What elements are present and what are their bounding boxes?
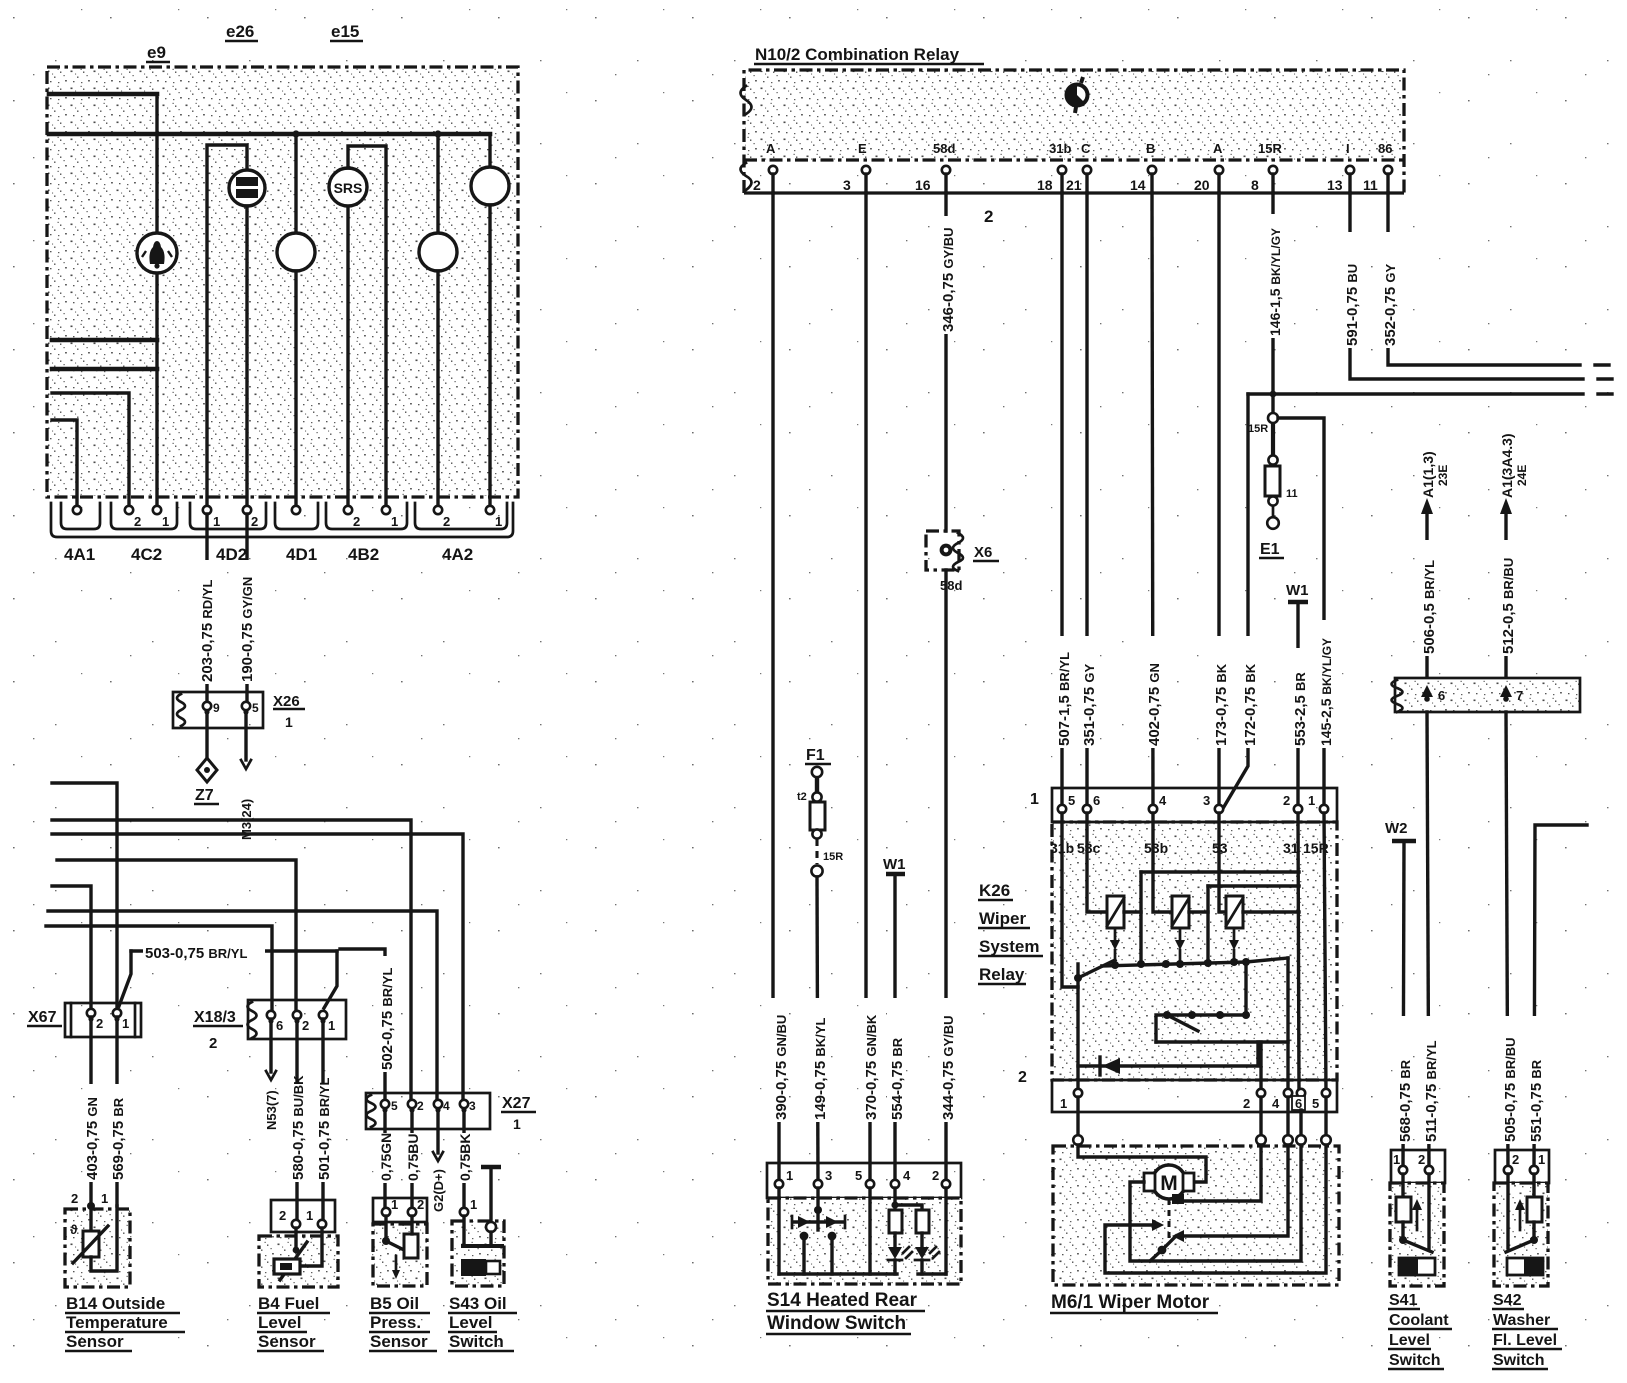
svg-text:I: I bbox=[1346, 141, 1350, 156]
bus wire left-3 bbox=[52, 338, 157, 343]
svg-text:Z7: Z7 bbox=[195, 787, 214, 804]
motor shaft dashed bbox=[1168, 1199, 1171, 1240]
svg-text:Sensor: Sensor bbox=[370, 1332, 428, 1351]
wires K26 to motor bbox=[1076, 1097, 1079, 1134]
wire pin4 contact bbox=[1182, 1145, 1288, 1236]
wire coil top bus H1 bbox=[1141, 870, 1299, 873]
wire coil1 right stub bbox=[1124, 910, 1141, 913]
svg-text:2: 2 bbox=[353, 514, 360, 529]
relay K26 top connector box bbox=[1052, 788, 1337, 822]
cluster housing dash-dot box bbox=[47, 67, 518, 497]
svg-text:3: 3 bbox=[1203, 793, 1210, 808]
connector X18/3 bbox=[248, 1000, 346, 1039]
svg-text:0,75BK: 0,75BK bbox=[457, 1134, 473, 1181]
svg-text:53c: 53c bbox=[1077, 840, 1101, 856]
wire 0,75BU bbox=[410, 1112, 413, 1212]
K26 top pins bbox=[1058, 805, 1066, 813]
svg-text:551-0,75 BR: 551-0,75 BR bbox=[1528, 1059, 1545, 1142]
svg-text:580-0,75 BU/BK: 580-0,75 BU/BK bbox=[290, 1075, 307, 1180]
svg-text:5: 5 bbox=[391, 1099, 398, 1113]
pin 4C2-1 bbox=[153, 506, 161, 514]
outer bracket bbox=[51, 503, 513, 537]
wire 0,75BK bbox=[462, 1112, 465, 1212]
svg-text:Sensor: Sensor bbox=[258, 1332, 316, 1351]
wire 554-0,75 BR to S14 pin4 bbox=[893, 874, 896, 1184]
svg-text:145-2,5 BK/YL/GY: 145-2,5 BK/YL/GY bbox=[1318, 638, 1334, 746]
wire E(3) to S14 pin5 bbox=[866, 193, 870, 1184]
svg-text:553-2,5 BR: 553-2,5 BR bbox=[1292, 672, 1309, 746]
svg-text:15R: 15R bbox=[1258, 141, 1282, 156]
svg-text:X18/3: X18/3 bbox=[194, 1009, 236, 1026]
wire 172-0,75 BK to K26 pin3 bbox=[1222, 394, 1248, 810]
wire 15R(8) 146-1,5 BK/YL/GY bbox=[1271, 193, 1274, 413]
svg-text:Press.: Press. bbox=[370, 1313, 421, 1332]
wire 15R pass-through bbox=[1324, 813, 1326, 1093]
svg-text:390-0,75 GN/BU: 390-0,75 GN/BU bbox=[773, 1015, 790, 1120]
svg-text:1: 1 bbox=[391, 514, 398, 529]
svg-text:20: 20 bbox=[1194, 177, 1210, 193]
svg-text:Level: Level bbox=[1389, 1332, 1430, 1349]
connector strip right (pins 6,7) bbox=[1396, 679, 1580, 712]
svg-text:e15: e15 bbox=[331, 22, 359, 41]
pin 4A1 bbox=[73, 506, 81, 514]
wire I(13) 591-0,75 BU bbox=[1350, 193, 1583, 379]
svg-text:503-0,75 BR/YL: 503-0,75 BR/YL bbox=[145, 945, 247, 962]
lamp 4D1 column bbox=[294, 134, 297, 233]
svg-text:2: 2 bbox=[932, 1168, 939, 1183]
fuse E1 bbox=[1271, 423, 1275, 455]
svg-text:24E: 24E bbox=[1515, 465, 1529, 486]
wire 403-0,75 GN bbox=[89, 1017, 92, 1206]
svg-text:4B2: 4B2 bbox=[348, 545, 379, 564]
svg-text:2: 2 bbox=[1243, 1096, 1250, 1111]
wire X26-5 to M3(24) bbox=[244, 714, 247, 760]
junction 4A2 bbox=[434, 130, 441, 137]
motor M bbox=[1152, 1165, 1186, 1199]
relay N10/2 dash-dot housing bbox=[744, 70, 1404, 193]
svg-text:2: 2 bbox=[443, 514, 450, 529]
switch S42 top box bbox=[1495, 1150, 1549, 1183]
svg-text:e9: e9 bbox=[147, 43, 166, 62]
svg-text:2: 2 bbox=[417, 1099, 424, 1113]
wire 568-0,75 BR bbox=[1403, 841, 1404, 1170]
svg-text:5: 5 bbox=[1312, 1096, 1319, 1111]
switch blade left bbox=[1078, 960, 1115, 978]
svg-text:4: 4 bbox=[1272, 1096, 1280, 1111]
wire left brush to pin6 loop bbox=[1130, 1145, 1301, 1261]
svg-text:2: 2 bbox=[96, 1016, 103, 1031]
svg-text:13: 13 bbox=[1327, 177, 1343, 193]
svg-text:Washer: Washer bbox=[1493, 1312, 1550, 1329]
svg-text:203-0,75 RD/YL: 203-0,75 RD/YL bbox=[199, 580, 216, 682]
svg-text:346-0,75 GY/BU: 346-0,75 GY/BU bbox=[940, 227, 957, 332]
switch S14 stipple bbox=[769, 1198, 961, 1284]
motor input sockets bbox=[1073, 1135, 1083, 1145]
svg-text:2: 2 bbox=[417, 1197, 424, 1212]
svg-text:2: 2 bbox=[1283, 793, 1290, 808]
svg-text:4D1: 4D1 bbox=[286, 545, 317, 564]
svg-text:G2(D+): G2(D+) bbox=[431, 1169, 446, 1212]
wire bus to X67-1 bbox=[52, 783, 117, 1009]
svg-text:1: 1 bbox=[1030, 791, 1039, 808]
svg-text:591-0,75 BU: 591-0,75 BU bbox=[1344, 264, 1361, 346]
wire bus to X27-3 bbox=[52, 834, 463, 1099]
sensor B5 oil pressure bbox=[373, 1198, 427, 1222]
svg-text:4: 4 bbox=[1159, 793, 1167, 808]
S14 internals bbox=[777, 1188, 780, 1274]
wire bus to X27-4 bbox=[48, 911, 437, 1099]
wire pin1 to right brush bbox=[1078, 1145, 1206, 1182]
svg-text:2: 2 bbox=[279, 1208, 286, 1223]
svg-text:149-0,75 BK/YL: 149-0,75 BK/YL bbox=[812, 1018, 829, 1120]
wire 31b internal bbox=[1062, 813, 1078, 987]
connector X6 bbox=[926, 531, 959, 570]
svg-text:0,75BU: 0,75BU bbox=[405, 1134, 421, 1181]
wire 344-0,75 GY/BU to S14 pin2 bbox=[944, 570, 947, 1184]
svg-text:5: 5 bbox=[252, 701, 259, 715]
svg-text:511-0,75 BR/YL: 511-0,75 BR/YL bbox=[1423, 1040, 1440, 1142]
svg-text:N10/2 Combination Relay: N10/2 Combination Relay bbox=[755, 45, 960, 64]
wire 15R to 145 branch bbox=[1278, 418, 1324, 809]
wire 511-0,75 BR/YL bbox=[1427, 712, 1429, 1170]
svg-text:A1(1,3): A1(1,3) bbox=[1420, 451, 1436, 498]
wire C(21) 351-0,75 GY to K26 pin6 bbox=[1085, 193, 1088, 809]
bus wire left-5 bbox=[52, 393, 129, 506]
svg-text:53b: 53b bbox=[1144, 840, 1168, 856]
wire A(20) 173-0,75 BK to K26 pin3 bbox=[1217, 193, 1220, 809]
svg-text:Coolant: Coolant bbox=[1389, 1312, 1449, 1329]
connector X27 bbox=[366, 1093, 490, 1129]
pin 4D2-2 bbox=[243, 506, 251, 514]
wire 190-0,75 GY/GN bbox=[245, 514, 248, 701]
svg-text:1: 1 bbox=[470, 1197, 477, 1212]
svg-text:t2: t2 bbox=[797, 791, 807, 803]
connector 4D1 bracket bbox=[275, 503, 318, 529]
wire coil3 right stub bbox=[1243, 910, 1299, 913]
switch S42 dash-dot housing bbox=[1494, 1183, 1548, 1286]
svg-text:B4 Fuel: B4 Fuel bbox=[258, 1294, 319, 1313]
svg-text:11: 11 bbox=[1286, 488, 1298, 500]
svg-text:Relay: Relay bbox=[979, 965, 1025, 984]
svg-text:173-0,75 BK: 173-0,75 BK bbox=[1213, 663, 1230, 746]
svg-text:3: 3 bbox=[469, 1099, 476, 1113]
relay K26 dash-dot housing bbox=[1052, 822, 1337, 1080]
switch S41 stipple bbox=[1391, 1183, 1444, 1286]
svg-text:1: 1 bbox=[306, 1208, 313, 1223]
svg-text:4C2: 4C2 bbox=[131, 545, 162, 564]
bus wire left-6 bbox=[52, 420, 77, 506]
svg-text:1: 1 bbox=[1393, 1152, 1400, 1167]
svg-text:Window Switch: Window Switch bbox=[767, 1313, 906, 1334]
svg-text:16: 16 bbox=[915, 177, 931, 193]
svg-text:4A2: 4A2 bbox=[442, 545, 473, 564]
sensor B4 fuel level bbox=[271, 1200, 335, 1232]
wire 53 to coil3 bbox=[1219, 813, 1226, 912]
svg-text:3: 3 bbox=[825, 1168, 832, 1183]
svg-text:15R: 15R bbox=[823, 851, 843, 863]
svg-text:370-0,75 GN/BK: 370-0,75 GN/BK bbox=[863, 1014, 880, 1120]
svg-text:2: 2 bbox=[71, 1191, 78, 1206]
svg-text:2: 2 bbox=[1418, 1152, 1425, 1167]
svg-text:352-0,75 GY: 352-0,75 GY bbox=[1382, 263, 1399, 346]
wire 0,75GN bbox=[383, 1112, 386, 1212]
sensor B14 outside temperature bbox=[66, 1209, 130, 1287]
svg-text:Wiper: Wiper bbox=[979, 909, 1026, 928]
wire 149-0,75 BK/YL to S14 pin3 bbox=[817, 877, 818, 1184]
svg-text:4: 4 bbox=[443, 1099, 450, 1113]
svg-text:A1(3A4.3): A1(3A4.3) bbox=[1499, 433, 1515, 498]
svg-text:1: 1 bbox=[101, 1191, 108, 1206]
svg-text:0,75GN: 0,75GN bbox=[378, 1133, 394, 1181]
svg-text:SRS: SRS bbox=[334, 180, 363, 196]
wire 31b(18) 507-1,5 BR/YL to K26 pin5 bbox=[1060, 193, 1063, 809]
bus wire top-1 bbox=[49, 92, 157, 97]
wire 506-0,5 BR/YL to A1(1,3) bbox=[1425, 510, 1428, 692]
svg-text:S41: S41 bbox=[1389, 1292, 1418, 1309]
svg-text:505-0,75 BR/BU: 505-0,75 BR/BU bbox=[1502, 1037, 1519, 1142]
svg-text:403-0,75 GN: 403-0,75 GN bbox=[84, 1097, 101, 1180]
svg-text:A: A bbox=[1213, 141, 1223, 156]
wire bus to X18/3-6 bbox=[46, 926, 272, 1010]
svg-text:2: 2 bbox=[302, 1018, 309, 1033]
connector 4C2 bracket bbox=[111, 503, 177, 529]
svg-text:1: 1 bbox=[1538, 1152, 1545, 1167]
svg-text:86: 86 bbox=[1378, 141, 1392, 156]
relay coil 1 bbox=[1107, 896, 1124, 928]
svg-text:4A1: 4A1 bbox=[64, 545, 95, 564]
svg-text:e26: e26 bbox=[226, 22, 254, 41]
wire G2(D+) arrow bbox=[436, 1112, 439, 1153]
connector 4A2 bracket bbox=[415, 503, 507, 529]
wire 501-0,75 BR/YL bbox=[321, 1019, 324, 1224]
svg-text:1: 1 bbox=[328, 1018, 335, 1033]
svg-text:Level: Level bbox=[258, 1313, 301, 1332]
lower contact set bbox=[1156, 1015, 1246, 1042]
switch S43 oil level bbox=[460, 1208, 468, 1216]
svg-text:B: B bbox=[1146, 141, 1155, 156]
wire bus to X18/3-2 bbox=[57, 860, 296, 1010]
svg-text:2: 2 bbox=[753, 177, 761, 193]
switch S41 dash-dot housing bbox=[1390, 1183, 1444, 1286]
svg-text:501-0,75 BR/YL: 501-0,75 BR/YL bbox=[316, 1078, 333, 1180]
wire 512-0,5 BR/BU to A1(3A4.3) bbox=[1504, 510, 1507, 692]
svg-text:S42: S42 bbox=[1493, 1292, 1522, 1309]
S41 internals bbox=[1401, 1174, 1404, 1197]
svg-text:1: 1 bbox=[786, 1168, 793, 1183]
wire bus to X27-2 bbox=[52, 820, 411, 1099]
wire motor tab to pin2 bbox=[1172, 1194, 1184, 1204]
svg-text:507-1,5 BR/YL: 507-1,5 BR/YL bbox=[1056, 652, 1073, 746]
wire 580-0,75 BU/BK bbox=[295, 1019, 298, 1224]
wire contact rail drop bbox=[1286, 958, 1289, 1093]
wire 551-0,75 BR bbox=[1534, 825, 1587, 1170]
svg-text:554-0,75 BR: 554-0,75 BR bbox=[889, 1037, 906, 1120]
svg-text:58d: 58d bbox=[933, 141, 955, 156]
svg-text:N53(7): N53(7) bbox=[264, 1090, 279, 1130]
svg-text:21: 21 bbox=[1066, 177, 1082, 193]
svg-text:2: 2 bbox=[1018, 1069, 1027, 1086]
relay coil 3 bbox=[1226, 896, 1243, 928]
wire e9 lamp column bbox=[155, 94, 158, 233]
svg-text:B14 Outside: B14 Outside bbox=[66, 1294, 165, 1313]
connector 4B2 bracket bbox=[326, 503, 407, 529]
svg-text:X26: X26 bbox=[273, 693, 300, 710]
pin 4D2-1 bbox=[203, 506, 211, 514]
node 15R junction bbox=[1268, 413, 1278, 423]
lamp 4A2-right column bbox=[488, 134, 491, 167]
wire N53(7) arrow bbox=[269, 1019, 272, 1072]
wire coil top bus H2 bbox=[1208, 884, 1299, 887]
svg-text:2: 2 bbox=[209, 1035, 217, 1052]
wire pin5 loop bbox=[1105, 1145, 1326, 1273]
svg-text:58d: 58d bbox=[940, 578, 962, 593]
wire bus to X67-2 bbox=[52, 886, 91, 1009]
svg-text:S14 Heated Rear: S14 Heated Rear bbox=[767, 1290, 918, 1311]
pin 4A2-1 bbox=[486, 506, 494, 514]
switch S14 dash-dot housing bbox=[768, 1198, 961, 1284]
connector X26 bbox=[173, 692, 263, 728]
svg-text:Level: Level bbox=[449, 1313, 492, 1332]
svg-text:C: C bbox=[1081, 141, 1091, 156]
wire 569-0,75 BR bbox=[115, 1017, 118, 1206]
svg-text:2: 2 bbox=[251, 514, 258, 529]
switch S41 top box bbox=[1391, 1150, 1445, 1183]
pin 4B2-2 bbox=[344, 506, 352, 514]
svg-text:5: 5 bbox=[855, 1168, 862, 1183]
bus wire left-4 bbox=[52, 367, 157, 372]
svg-text:X6: X6 bbox=[974, 544, 992, 561]
svg-text:1: 1 bbox=[213, 514, 220, 529]
svg-text:W1: W1 bbox=[883, 856, 906, 873]
svg-text:Temperature: Temperature bbox=[66, 1313, 168, 1332]
svg-text:X27: X27 bbox=[502, 1095, 531, 1112]
lamp SRS column bbox=[346, 206, 349, 506]
contact rail bbox=[1103, 958, 1288, 966]
junction 4D1 bbox=[292, 130, 299, 137]
svg-text:5: 5 bbox=[1068, 793, 1075, 808]
svg-text:Switch: Switch bbox=[449, 1332, 504, 1351]
wire A(2) to S14 pin1 bbox=[773, 193, 779, 1184]
svg-text:M: M bbox=[1160, 1172, 1178, 1195]
S42 internals bbox=[1532, 1174, 1535, 1197]
wire 502-0,75 BR/YL bbox=[340, 949, 385, 1099]
ground connector Z7 (diamond) bbox=[197, 758, 217, 782]
svg-text:A: A bbox=[766, 141, 776, 156]
svg-text:1: 1 bbox=[285, 714, 293, 730]
wiper icon bbox=[1067, 85, 1088, 106]
switch S14 top box bbox=[767, 1163, 961, 1198]
svg-text:190-0,75 GY/GN: 190-0,75 GY/GN bbox=[239, 577, 256, 682]
svg-text:Sensor: Sensor bbox=[66, 1332, 124, 1351]
svg-text:2: 2 bbox=[134, 514, 141, 529]
wire 172-0,75 BK horizontal bbox=[1248, 392, 1583, 395]
switch S42 stipple bbox=[1495, 1183, 1548, 1286]
svg-text:B5 Oil: B5 Oil bbox=[370, 1294, 419, 1313]
park switch bbox=[1158, 1246, 1167, 1255]
svg-text:569-0,75 BR: 569-0,75 BR bbox=[110, 1097, 127, 1180]
svg-text:X67: X67 bbox=[28, 1009, 57, 1026]
connector X67 bbox=[65, 1003, 141, 1037]
svg-text:6: 6 bbox=[1438, 688, 1445, 703]
lower rail bbox=[1156, 1040, 1288, 1043]
diode D1 bbox=[1078, 1042, 1258, 1066]
svg-text:568-0,75 BR: 568-0,75 BR bbox=[1397, 1059, 1414, 1142]
svg-text:6: 6 bbox=[276, 1018, 283, 1033]
connector 4D2 bracket bbox=[190, 503, 266, 529]
svg-text:6: 6 bbox=[1093, 793, 1100, 808]
svg-text:1: 1 bbox=[122, 1016, 129, 1031]
wire 503-0,75 BR/YL bbox=[131, 949, 337, 952]
svg-text:W2: W2 bbox=[1385, 820, 1408, 837]
svg-text:23E: 23E bbox=[1436, 465, 1450, 486]
pin 4D1 bbox=[292, 506, 300, 514]
svg-text:14: 14 bbox=[1130, 177, 1146, 193]
svg-text:ϑ: ϑ bbox=[70, 1222, 78, 1237]
svg-text:11: 11 bbox=[1363, 177, 1378, 193]
svg-text:15R: 15R bbox=[1248, 423, 1268, 435]
svg-text:W1: W1 bbox=[1286, 582, 1309, 599]
relay inner terminal line bbox=[744, 158, 1404, 161]
wire X26-9 to Z7 bbox=[205, 714, 208, 757]
svg-text:Switch: Switch bbox=[1493, 1352, 1545, 1369]
svg-text:4: 4 bbox=[903, 1168, 911, 1183]
svg-text:1: 1 bbox=[1060, 1096, 1067, 1111]
wire 31 pass-through bbox=[1298, 813, 1299, 1093]
motor box stipple bbox=[1054, 1147, 1338, 1284]
svg-text:M6/1 Wiper Motor: M6/1 Wiper Motor bbox=[1051, 1292, 1210, 1313]
svg-text:1: 1 bbox=[495, 514, 502, 529]
wire 53b to coil2 bbox=[1153, 813, 1172, 912]
wire 58d(16) 346-0,75 GY/BU bbox=[944, 193, 947, 531]
svg-text:2: 2 bbox=[984, 207, 993, 226]
lamp 4A2-left column bbox=[436, 134, 439, 233]
svg-text:172-0,75 BK: 172-0,75 BK bbox=[1242, 663, 1259, 746]
svg-text:Switch: Switch bbox=[1389, 1352, 1441, 1369]
lamp e9 (belt warning) bbox=[137, 233, 177, 273]
S14 resistors and LEDs bbox=[893, 1188, 896, 1210]
svg-text:351-0,75 GY: 351-0,75 GY bbox=[1081, 663, 1098, 746]
svg-text:1: 1 bbox=[1308, 793, 1315, 808]
svg-text:502-0,75 BR/YL: 502-0,75 BR/YL bbox=[379, 968, 396, 1070]
svg-text:18: 18 bbox=[1037, 177, 1053, 193]
connector 4A1 bracket bbox=[61, 503, 100, 529]
svg-text:344-0,75 GY/BU: 344-0,75 GY/BU bbox=[940, 1015, 957, 1120]
lamp e26 (brake lining, dark icon) bbox=[207, 145, 247, 506]
svg-text:1: 1 bbox=[513, 1116, 521, 1132]
svg-text:1: 1 bbox=[162, 514, 169, 529]
svg-text:402-0,75 GN: 402-0,75 GN bbox=[1146, 663, 1163, 746]
svg-text:1: 1 bbox=[391, 1197, 398, 1212]
wire B(14) 402-0,75 GN to K26 pin4 bbox=[1152, 193, 1153, 809]
cluster stipple fill bbox=[48, 68, 517, 496]
wire 505-0,75 BR/BU bbox=[1506, 712, 1508, 1170]
svg-text:3: 3 bbox=[843, 177, 851, 193]
relay coil 2 bbox=[1172, 896, 1189, 928]
svg-text:506-0,5 BR/YL: 506-0,5 BR/YL bbox=[1421, 560, 1438, 654]
svg-text:System: System bbox=[979, 937, 1039, 956]
wire 203-0,75 RD/YL bbox=[205, 514, 208, 701]
relay K26 bottom connector box bbox=[1052, 1080, 1337, 1112]
svg-text:512-0,5 BR/BU: 512-0,5 BR/BU bbox=[1500, 558, 1517, 654]
pin 4B2-1 bbox=[382, 506, 390, 514]
svg-text:2: 2 bbox=[1512, 1152, 1519, 1167]
svg-text:7: 7 bbox=[1516, 688, 1523, 703]
wire 86(11) 352-0,75 GY bbox=[1388, 193, 1580, 365]
wire 53c to coil1 bbox=[1087, 813, 1107, 912]
svg-text:146-1,5 BK/YL/GY: 146-1,5 BK/YL/GY bbox=[1267, 228, 1283, 336]
pin 4A2-2 bbox=[434, 506, 442, 514]
wire coil2 right stub bbox=[1189, 910, 1208, 913]
